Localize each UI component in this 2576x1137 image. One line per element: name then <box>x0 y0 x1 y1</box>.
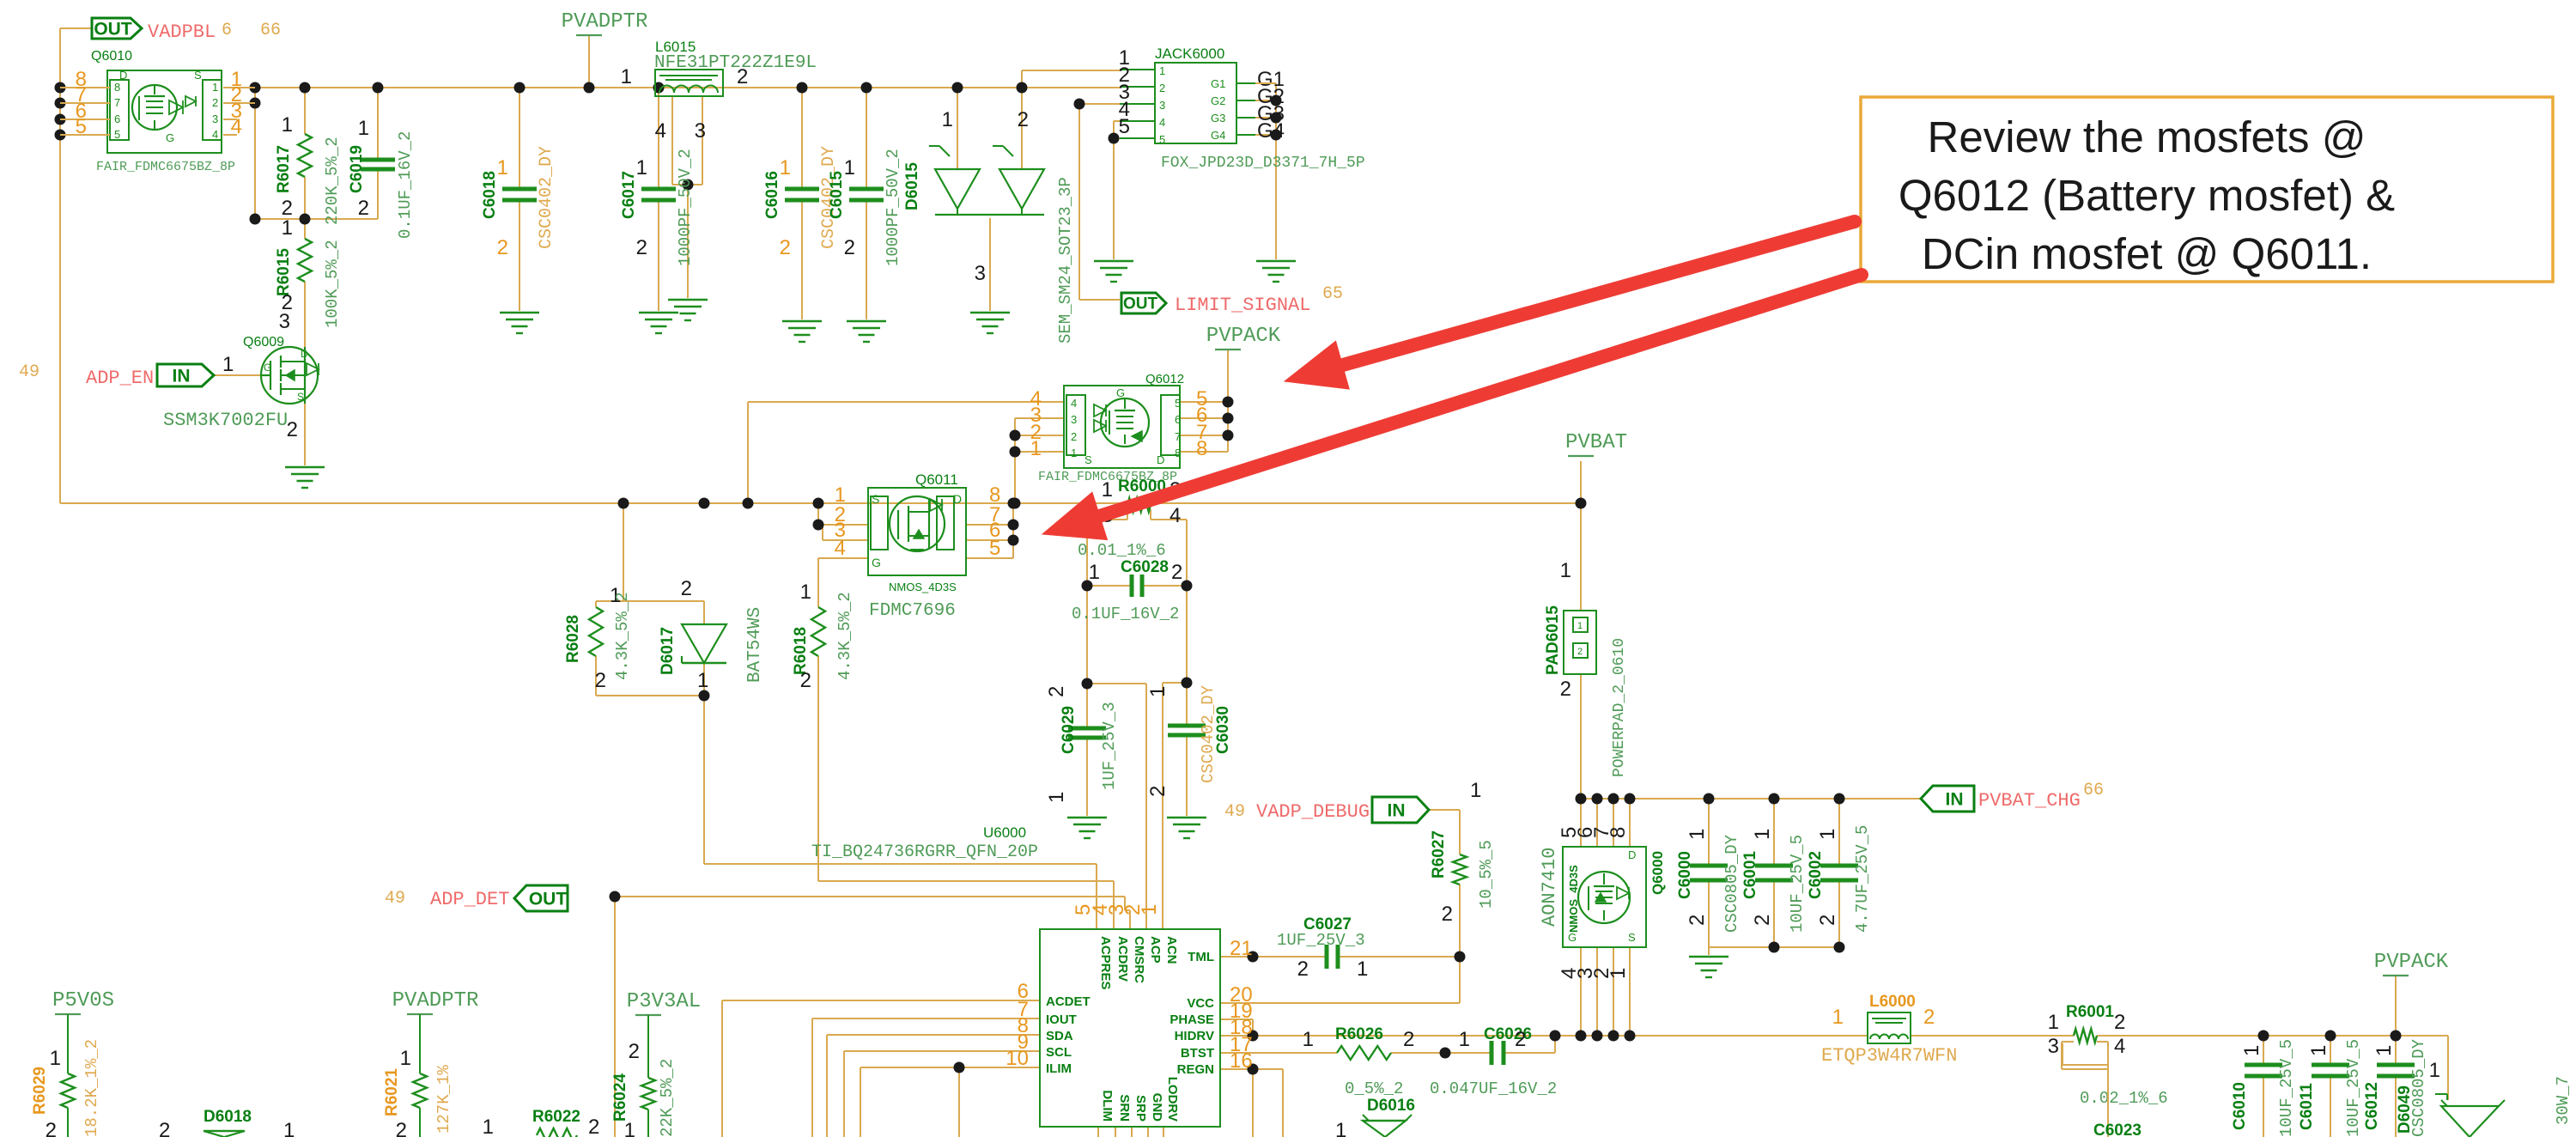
svg-text:0.01_1%_6: 0.01_1%_6 <box>1078 541 1166 560</box>
svg-text:R6027: R6027 <box>1430 830 1448 879</box>
svg-text:PVADPTR: PVADPTR <box>392 989 479 1012</box>
svg-text:PVPACK: PVPACK <box>2374 951 2449 974</box>
svg-text:NMOS_4D3S: NMOS_4D3S <box>889 581 957 593</box>
svg-text:ACDET: ACDET <box>1046 994 1091 1009</box>
svg-text:ETQP3W4R7WFN: ETQP3W4R7WFN <box>1821 1045 1957 1067</box>
svg-text:1: 1 <box>1071 447 1077 459</box>
svg-text:2: 2 <box>780 236 791 259</box>
svg-text:TI_BQ24736RGRR_QFN_20P: TI_BQ24736RGRR_QFN_20P <box>811 842 1038 862</box>
svg-text:1: 1 <box>50 1047 61 1070</box>
svg-text:D6017: D6017 <box>659 627 677 675</box>
svg-text:2: 2 <box>595 669 606 692</box>
svg-text:49: 49 <box>1224 802 1245 822</box>
svg-text:PVBAT: PVBAT <box>1565 431 1627 454</box>
svg-text:1: 1 <box>780 156 791 179</box>
svg-text:C6011: C6011 <box>2298 1083 2316 1130</box>
svg-text:2: 2 <box>681 577 692 600</box>
svg-text:0.047UF_16V_2: 0.047UF_16V_2 <box>1430 1079 1557 1098</box>
svg-text:2: 2 <box>159 1119 170 1137</box>
svg-text:10UF_25V_5: 10UF_25V_5 <box>2277 1039 2296 1137</box>
svg-text:21: 21 <box>1230 937 1253 960</box>
svg-text:FAIR_FDMC6675BZ_8P: FAIR_FDMC6675BZ_8P <box>96 160 235 174</box>
svg-text:4: 4 <box>655 119 666 143</box>
svg-text:3: 3 <box>279 310 290 333</box>
svg-text:1: 1 <box>1159 64 1165 77</box>
svg-text:2: 2 <box>396 1119 407 1137</box>
svg-text:4.7UF_25V_5: 4.7UF_25V_5 <box>1853 825 1872 933</box>
svg-text:3: 3 <box>1071 413 1077 426</box>
svg-text:10: 10 <box>1005 1047 1029 1070</box>
svg-text:1: 1 <box>636 156 647 179</box>
svg-text:2: 2 <box>629 1040 640 1063</box>
svg-text:3: 3 <box>2048 1035 2059 1058</box>
svg-text:1: 1 <box>2429 1059 2440 1082</box>
svg-text:IN: IN <box>1388 800 1406 820</box>
svg-text:1: 1 <box>2307 1045 2330 1056</box>
svg-text:2: 2 <box>1146 786 1170 797</box>
svg-text:4: 4 <box>835 537 846 560</box>
svg-text:7: 7 <box>114 96 120 109</box>
svg-text:65: 65 <box>1322 284 1343 304</box>
svg-text:0.1UF_16V_2: 0.1UF_16V_2 <box>396 131 415 239</box>
svg-text:2: 2 <box>1577 647 1583 657</box>
svg-text:R6018: R6018 <box>792 627 810 675</box>
svg-text:10UF_25V_5: 10UF_25V_5 <box>1788 835 1807 933</box>
svg-text:0.1UF_16V_2: 0.1UF_16V_2 <box>1072 605 1179 623</box>
svg-text:5: 5 <box>1159 133 1165 146</box>
svg-text:C6001: C6001 <box>1741 851 1759 899</box>
svg-text:G: G <box>1116 386 1125 399</box>
svg-text:2: 2 <box>844 236 855 259</box>
svg-text:30W_7: 30W_7 <box>2554 1076 2573 1125</box>
svg-text:2: 2 <box>1403 1028 1414 1051</box>
svg-text:1: 1 <box>1102 478 1113 502</box>
svg-text:D6018: D6018 <box>204 1108 252 1126</box>
svg-text:8: 8 <box>1175 447 1181 459</box>
svg-text:PHASE: PHASE <box>1170 1012 1214 1027</box>
svg-text:IN: IN <box>1946 789 1964 809</box>
svg-text:3: 3 <box>1159 99 1165 112</box>
svg-text:3: 3 <box>695 119 706 143</box>
svg-text:Q6011: Q6011 <box>915 471 958 488</box>
svg-text:PVBAT_CHG: PVBAT_CHG <box>1978 790 2081 812</box>
svg-text:127K_1%: 127K_1% <box>434 1065 453 1134</box>
svg-text:R6024: R6024 <box>611 1073 629 1122</box>
svg-text:4: 4 <box>231 115 242 138</box>
svg-text:FOX_JPD23D_D3371_7H_5P: FOX_JPD23D_D3371_7H_5P <box>1161 155 1365 172</box>
svg-text:8: 8 <box>114 81 120 94</box>
svg-text:R6015: R6015 <box>275 248 293 296</box>
svg-text:G: G <box>872 556 881 569</box>
svg-text:C6028: C6028 <box>1121 558 1169 576</box>
svg-text:S: S <box>872 492 879 506</box>
svg-text:5: 5 <box>1119 115 1130 138</box>
svg-text:1: 1 <box>1560 559 1571 582</box>
svg-text:C6023: C6023 <box>2093 1122 2142 1137</box>
svg-text:100K_5%_2: 100K_5%_2 <box>323 240 342 328</box>
svg-text:IOUT: IOUT <box>1046 1012 1077 1027</box>
svg-text:PVPACK: PVPACK <box>1206 325 1281 348</box>
svg-text:G: G <box>166 131 174 144</box>
svg-text:R6001: R6001 <box>2066 1003 2114 1021</box>
svg-text:Q6000: Q6000 <box>1649 851 1666 895</box>
svg-text:2: 2 <box>1515 1028 1526 1051</box>
svg-text:49: 49 <box>385 889 405 909</box>
svg-text:4: 4 <box>1159 116 1165 129</box>
svg-text:JACK6000: JACK6000 <box>1155 46 1224 62</box>
svg-text:ACPRES: ACPRES <box>1098 936 1113 990</box>
svg-text:2: 2 <box>358 197 369 220</box>
svg-text:7: 7 <box>1175 430 1181 443</box>
svg-text:OUT: OUT <box>529 889 568 909</box>
svg-text:R6022: R6022 <box>532 1108 580 1126</box>
svg-text:2: 2 <box>1297 958 1309 981</box>
svg-text:1: 1 <box>1138 904 1161 915</box>
svg-text:1: 1 <box>282 216 293 240</box>
svg-text:D6016: D6016 <box>1367 1097 1415 1115</box>
svg-text:1000PF_50V_2: 1000PF_50V_2 <box>884 149 902 266</box>
svg-text:1: 1 <box>1357 958 1368 981</box>
svg-text:2: 2 <box>800 669 811 692</box>
svg-text:22K_5%_2: 22K_5%_2 <box>658 1059 677 1137</box>
svg-text:PVADPTR: PVADPTR <box>562 10 648 33</box>
svg-text:U6000: U6000 <box>983 824 1026 841</box>
svg-text:S: S <box>1084 453 1092 466</box>
svg-text:D6049: D6049 <box>2396 1085 2414 1134</box>
svg-text:4.3K_5%_2: 4.3K_5%_2 <box>835 592 854 680</box>
svg-text:ADP_EN: ADP_EN <box>86 368 154 389</box>
svg-text:1000PF_50V_2: 1000PF_50V_2 <box>676 149 695 266</box>
svg-text:18.2K_1%_2: 18.2K_1%_2 <box>82 1039 101 1137</box>
svg-text:1: 1 <box>1045 792 1068 803</box>
svg-text:5: 5 <box>1175 397 1181 410</box>
svg-text:G: G <box>264 362 271 374</box>
svg-text:ACDRV: ACDRV <box>1115 936 1130 982</box>
svg-text:D: D <box>1157 453 1164 466</box>
svg-text:8: 8 <box>1607 827 1630 838</box>
svg-text:1: 1 <box>282 113 293 137</box>
svg-text:D: D <box>119 69 127 82</box>
svg-text:SRN: SRN <box>1117 1094 1132 1122</box>
svg-text:2: 2 <box>737 65 748 88</box>
svg-text:FDMC7696: FDMC7696 <box>869 601 956 621</box>
svg-text:8: 8 <box>1196 437 1207 460</box>
svg-text:1: 1 <box>283 1119 295 1137</box>
svg-text:ILIM: ILIM <box>1046 1061 1072 1076</box>
svg-text:NMOS_4D3S: NMOS_4D3S <box>1567 865 1580 933</box>
svg-text:GND: GND <box>1150 1093 1164 1122</box>
svg-text:16: 16 <box>1230 1049 1253 1073</box>
svg-text:0_5%_2: 0_5%_2 <box>1345 1079 1403 1098</box>
svg-text:C6019: C6019 <box>348 145 366 193</box>
svg-text:1: 1 <box>1816 829 1839 840</box>
svg-text:6: 6 <box>1175 413 1181 426</box>
svg-text:1: 1 <box>1335 1119 1346 1137</box>
svg-text:1: 1 <box>483 1116 494 1137</box>
svg-text:D: D <box>301 348 308 360</box>
svg-text:1: 1 <box>1146 686 1170 697</box>
svg-text:VCC: VCC <box>1187 996 1214 1011</box>
svg-text:REGN: REGN <box>1177 1062 1214 1077</box>
svg-text:1: 1 <box>624 1119 635 1137</box>
svg-text:1: 1 <box>2240 1045 2263 1056</box>
svg-text:G4: G4 <box>1257 119 1285 143</box>
svg-text:49: 49 <box>19 362 39 382</box>
svg-text:R6026: R6026 <box>1335 1025 1383 1043</box>
svg-text:1UF_25V_3: 1UF_25V_3 <box>1277 931 1365 950</box>
svg-text:IN: IN <box>173 366 191 386</box>
svg-text:1: 1 <box>697 669 708 692</box>
svg-text:DLIM: DLIM <box>1100 1090 1115 1122</box>
svg-text:3: 3 <box>212 112 218 125</box>
svg-text:VADPBL: VADPBL <box>148 21 216 43</box>
svg-text:4: 4 <box>1071 397 1077 410</box>
svg-text:2: 2 <box>1923 1006 1935 1029</box>
svg-text:2: 2 <box>2114 1011 2125 1034</box>
svg-text:AON7410: AON7410 <box>1539 848 1560 927</box>
svg-text:CMSRC: CMSRC <box>1132 936 1146 983</box>
svg-text:2: 2 <box>1686 915 1709 926</box>
svg-text:1: 1 <box>1470 779 1481 802</box>
svg-text:Q6009: Q6009 <box>243 335 284 350</box>
svg-text:CSC0402_DY: CSC0402_DY <box>537 146 556 249</box>
svg-text:1: 1 <box>212 81 218 94</box>
svg-text:1: 1 <box>800 581 811 604</box>
svg-text:Review the mosfets @: Review the mosfets @ <box>1928 112 2366 161</box>
svg-text:1: 1 <box>497 156 508 179</box>
svg-text:R6028: R6028 <box>564 615 582 663</box>
svg-text:1: 1 <box>1832 1006 1844 1029</box>
svg-text:P5V0S: P5V0S <box>52 989 114 1012</box>
svg-text:5: 5 <box>989 537 1000 560</box>
svg-text:L6000: L6000 <box>1869 993 1916 1011</box>
svg-text:OUT: OUT <box>94 19 132 39</box>
svg-text:1: 1 <box>2048 1011 2059 1034</box>
svg-text:3: 3 <box>975 262 986 285</box>
svg-text:ADP_DET: ADP_DET <box>430 889 509 910</box>
svg-text:4: 4 <box>1170 504 1181 527</box>
svg-text:2: 2 <box>1751 915 1774 926</box>
svg-text:6: 6 <box>114 112 120 125</box>
svg-text:C6029: C6029 <box>1060 706 1078 754</box>
svg-text:S: S <box>297 391 304 403</box>
svg-text:CSC0402_DY: CSC0402_DY <box>1199 684 1218 783</box>
svg-text:1: 1 <box>1089 561 1100 584</box>
svg-text:4: 4 <box>212 128 218 141</box>
svg-text:G4: G4 <box>1211 129 1225 142</box>
svg-text:HIDRV: HIDRV <box>1175 1029 1214 1043</box>
svg-text:TML: TML <box>1188 950 1214 964</box>
svg-text:1: 1 <box>2372 1045 2396 1056</box>
svg-text:66: 66 <box>260 21 281 40</box>
svg-text:2: 2 <box>1071 430 1077 443</box>
svg-text:2: 2 <box>588 1116 599 1137</box>
svg-text:CSC0805_DY: CSC0805_DY <box>1722 834 1741 933</box>
svg-text:1: 1 <box>621 65 632 88</box>
svg-text:OUT: OUT <box>1123 295 1158 313</box>
svg-text:SEM_SM24_SOT23_3P: SEM_SM24_SOT23_3P <box>1056 177 1075 344</box>
svg-text:2: 2 <box>1560 678 1571 701</box>
svg-text:10_5%_5: 10_5%_5 <box>1477 840 1496 909</box>
svg-text:220K_5%_2: 220K_5%_2 <box>323 137 342 225</box>
svg-text:0.02_1%_6: 0.02_1%_6 <box>2080 1089 2168 1108</box>
svg-text:BTST: BTST <box>1181 1046 1214 1061</box>
svg-text:1: 1 <box>1751 829 1774 840</box>
svg-text:66: 66 <box>2083 781 2104 800</box>
svg-text:G: G <box>1568 931 1577 944</box>
svg-text:G2: G2 <box>1211 94 1225 107</box>
svg-text:S: S <box>1628 931 1636 944</box>
svg-text:2: 2 <box>1442 903 1453 926</box>
svg-text:C6012: C6012 <box>2363 1082 2381 1130</box>
svg-text:1: 1 <box>1577 621 1583 631</box>
svg-text:Q6010: Q6010 <box>91 49 132 64</box>
svg-text:1UF_25V_3: 1UF_25V_3 <box>1100 702 1119 790</box>
svg-text:ACN: ACN <box>1164 936 1179 964</box>
svg-text:2: 2 <box>287 418 298 441</box>
svg-text:2: 2 <box>1045 686 1068 697</box>
svg-text:1: 1 <box>1030 437 1042 460</box>
svg-text:NFE31PT222Z1E9L: NFE31PT222Z1E9L <box>654 53 817 73</box>
svg-text:D6015: D6015 <box>903 162 921 210</box>
svg-text:5: 5 <box>76 115 87 138</box>
svg-text:SCL: SCL <box>1046 1045 1072 1060</box>
svg-text:R6029: R6029 <box>31 1067 49 1115</box>
svg-text:6: 6 <box>222 21 232 40</box>
svg-text:1: 1 <box>400 1047 411 1070</box>
svg-text:1: 1 <box>844 156 855 179</box>
svg-text:2: 2 <box>1018 108 1029 131</box>
svg-text:R6017: R6017 <box>275 145 293 193</box>
svg-text:R6021: R6021 <box>383 1068 401 1116</box>
svg-text:S: S <box>194 69 202 82</box>
svg-text:1: 1 <box>1607 968 1630 979</box>
svg-text:1: 1 <box>222 353 234 376</box>
svg-text:2: 2 <box>1816 915 1839 926</box>
svg-text:SRP: SRP <box>1133 1095 1148 1122</box>
svg-text:2: 2 <box>1171 561 1182 584</box>
svg-text:Q6012 (Battery mosfet) &: Q6012 (Battery mosfet) & <box>1899 171 2395 220</box>
svg-text:1: 1 <box>1303 1028 1314 1051</box>
svg-text:D: D <box>1628 848 1636 861</box>
svg-text:10UF_25V_5: 10UF_25V_5 <box>2344 1039 2363 1137</box>
svg-text:PAD6015: PAD6015 <box>1544 605 1562 675</box>
svg-text:4: 4 <box>2114 1035 2125 1058</box>
svg-text:D: D <box>953 492 962 506</box>
svg-text:1: 1 <box>942 108 953 131</box>
svg-text:C6010: C6010 <box>2231 1082 2249 1130</box>
svg-text:DCin mosfet @ Q6011.: DCin mosfet @ Q6011. <box>1922 229 2372 278</box>
svg-text:2: 2 <box>497 236 508 259</box>
svg-text:LODRV: LODRV <box>1165 1077 1180 1122</box>
svg-text:Q6012: Q6012 <box>1145 372 1184 386</box>
svg-text:5: 5 <box>114 128 120 141</box>
svg-text:SDA: SDA <box>1046 1029 1073 1043</box>
svg-text:2: 2 <box>1159 82 1165 94</box>
svg-text:P3V3AL: P3V3AL <box>627 990 701 1013</box>
svg-text:C6002: C6002 <box>1807 851 1825 899</box>
svg-text:2: 2 <box>46 1119 57 1137</box>
svg-text:2: 2 <box>636 236 647 259</box>
svg-text:C6000: C6000 <box>1676 851 1694 899</box>
svg-text:BAT54WS: BAT54WS <box>745 607 765 683</box>
svg-text:1: 1 <box>1686 829 1709 840</box>
svg-text:G1: G1 <box>1211 77 1225 90</box>
svg-text:4.3K_5%_2: 4.3K_5%_2 <box>613 592 632 680</box>
svg-text:LIMIT_SIGNAL: LIMIT_SIGNAL <box>1175 295 1310 316</box>
svg-text:G3: G3 <box>1211 112 1225 125</box>
svg-text:2: 2 <box>212 96 218 109</box>
svg-text:1: 1 <box>358 117 369 140</box>
svg-text:POWERPAD_2_0610: POWERPAD_2_0610 <box>1611 638 1628 777</box>
svg-text:ACP: ACP <box>1148 936 1163 964</box>
svg-text:1: 1 <box>1459 1028 1470 1051</box>
svg-text:SSM3K7002FU: SSM3K7002FU <box>163 410 288 431</box>
svg-text:VADP_DEBUG: VADP_DEBUG <box>1256 801 1370 823</box>
